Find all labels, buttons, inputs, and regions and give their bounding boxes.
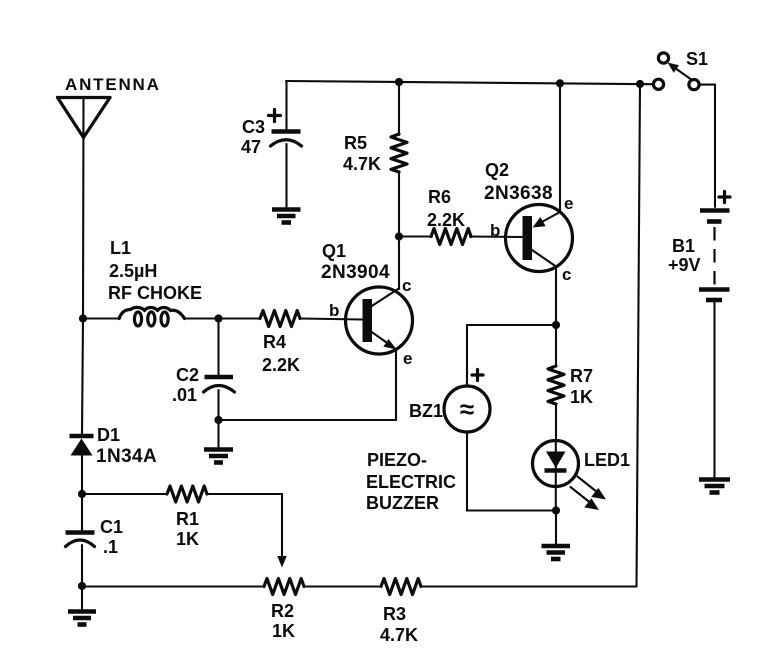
node L1 left junction — [79, 314, 87, 322]
Q2 emitter stroke with arrow (PNP) — [533, 212, 561, 228]
node A junction (D1/C1/R1) — [78, 490, 86, 498]
svg-text:BZ1: BZ1 — [409, 401, 443, 421]
svg-text:BUZZER: BUZZER — [366, 493, 439, 513]
LED1 circle — [533, 441, 579, 487]
svg-text:R6: R6 — [428, 187, 451, 207]
LED1 cathode bar — [545, 468, 567, 473]
PIEZO-ELECTRIC BUZZER caption — [366, 450, 456, 513]
wire C1 to bottom rail node — [81, 545, 83, 586]
wire antenna feed down to L1 node — [82, 98, 85, 319]
wire node A to C1 — [81, 494, 83, 531]
ground (below battery) — [699, 480, 730, 493]
svg-text:c: c — [402, 276, 411, 295]
battery B1 cell1 long plate — [700, 208, 730, 213]
node C2 bottom junction — [214, 416, 222, 424]
ground (below C3) — [272, 210, 301, 223]
resistor R5 — [391, 134, 407, 172]
svg-text:RF CHOKE: RF CHOKE — [108, 283, 202, 303]
wire right vertical (rail node to bottom rail) — [637, 84, 641, 587]
capacitor C3 top plate — [272, 129, 301, 134]
ground (below LED1) — [542, 546, 571, 559]
Q1 base bar — [363, 299, 373, 342]
LED1 triangle — [546, 452, 566, 469]
capacitor C2 curved plate — [204, 386, 235, 393]
svg-text:R4: R4 — [263, 332, 286, 352]
wiper arrow into R2 — [277, 556, 286, 568]
svg-text:2N3904: 2N3904 — [321, 262, 390, 283]
wire L1 node to choke — [83, 317, 120, 319]
svg-text:c: c — [562, 265, 571, 284]
node LED bottom junction — [552, 506, 560, 514]
svg-text:L1: L1 — [110, 238, 131, 258]
wire node up to R5 — [398, 172, 400, 237]
svg-text:C2: C2 — [176, 365, 199, 385]
LED1 emission arrow 1 — [578, 477, 607, 500]
svg-text:D1: D1 — [97, 425, 120, 445]
svg-text:R7: R7 — [570, 366, 593, 386]
LED1 emission arrow 2 — [571, 487, 600, 510]
transistor Q2 2N3638 circle — [506, 205, 573, 272]
wire S1 to battery — [700, 85, 716, 207]
svg-text:.1: .1 — [103, 537, 118, 557]
svg-text:PIEZO-: PIEZO- — [367, 450, 427, 470]
Q2 collector stroke — [532, 250, 556, 267]
svg-text:1N34A: 1N34A — [96, 446, 157, 467]
switch S1 right contact — [689, 80, 699, 90]
wire node to R6 — [399, 235, 432, 237]
resistor R3 — [381, 579, 421, 595]
svg-text:C1: C1 — [100, 517, 123, 537]
wire choke to C2 node — [185, 317, 220, 319]
resistor R4 — [260, 311, 300, 327]
svg-text:1K: 1K — [176, 529, 199, 549]
battery B1 dashed link — [713, 227, 715, 285]
svg-text:2N3638: 2N3638 — [484, 183, 553, 204]
wire buzzer bottom to LED node — [467, 432, 556, 511]
svg-text:ELECTRIC: ELECTRIC — [366, 472, 456, 492]
svg-text:1K: 1K — [570, 387, 593, 407]
svg-text:47: 47 — [241, 137, 261, 157]
bottom rail wire middle segment — [304, 585, 381, 587]
Q1 collector stroke — [371, 289, 398, 307]
svg-text:LED1: LED1 — [584, 450, 630, 470]
capacitor C2 top plate — [205, 375, 234, 380]
node rail right junction — [636, 80, 644, 88]
resistor R6 — [431, 229, 471, 245]
resistor R2 (pot) — [264, 579, 304, 595]
wire R1 to wiper drop — [207, 494, 282, 558]
wire Q2 emitter to top rail — [559, 84, 561, 212]
svg-text:Q2: Q2 — [485, 160, 509, 180]
node collector junction (R5/R6/Q1c) — [395, 232, 403, 240]
antenna symbol — [58, 98, 111, 138]
svg-text:2.2K: 2.2K — [262, 355, 300, 375]
Q2 base bar — [523, 216, 533, 260]
svg-text:b: b — [329, 301, 339, 320]
BZ1 plus sign — [472, 370, 483, 381]
battery B1 plus sign — [719, 192, 730, 203]
diode D1 (1N34A) cathode bar — [70, 434, 94, 439]
bottom rail wire right segment — [421, 585, 637, 587]
buzzer BZ1 circle — [444, 386, 490, 432]
capacitor C2 lead from node — [217, 319, 219, 376]
switch S1 left contact — [653, 79, 663, 89]
wire C2 node to ground — [217, 420, 219, 448]
svg-text:e: e — [564, 194, 573, 213]
wire C3 to ground — [285, 144, 287, 208]
svg-text:e: e — [403, 349, 412, 368]
svg-text:R2: R2 — [271, 601, 294, 621]
wire LED node to ground — [555, 511, 557, 546]
wire left vertical from L1 node down to D1 — [82, 319, 83, 435]
battery B1 cell2 long plate — [699, 287, 730, 292]
svg-text:C3: C3 — [242, 117, 265, 137]
capacitor C1 curved plate — [66, 540, 95, 547]
svg-text:Q1: Q1 — [322, 241, 346, 261]
wire Q2 collector down to buzzer node — [555, 267, 557, 326]
C3 plus sign — [269, 110, 281, 122]
ground (below C2) — [204, 450, 233, 463]
transistor Q1 2N3904 circle — [346, 287, 413, 354]
svg-text:2.5µH: 2.5µH — [109, 261, 157, 281]
Q1 emitter stroke with arrow — [371, 332, 397, 350]
wire C2 node to R4 — [219, 317, 261, 319]
switch S1 arm with arrow — [668, 63, 691, 80]
svg-text:R1: R1 — [176, 509, 199, 529]
wire R6 to Q2 base — [470, 235, 522, 238]
wire C2 bottom to node — [217, 390, 219, 420]
capacitor C3 curved plate — [271, 140, 302, 146]
top rail wire — [286, 81, 653, 84]
wire C3 drop from rail — [285, 81, 287, 130]
resistor R1 — [167, 486, 207, 502]
svg-text:ANTENNA: ANTENNA — [65, 75, 161, 94]
wire Q1 collector up to node — [398, 237, 400, 290]
svg-text:4.7K: 4.7K — [343, 154, 381, 174]
svg-text:R3: R3 — [383, 604, 406, 624]
node bottom-left junction (C1/bottom rail) — [78, 582, 86, 590]
wire node to R7 — [555, 325, 557, 366]
node rail R5 junction — [395, 78, 403, 86]
svg-text:1K: 1K — [272, 621, 295, 641]
capacitor C1 top plate — [66, 530, 95, 535]
svg-text:b: b — [490, 221, 500, 240]
switch S1 upper throw contact — [658, 53, 668, 63]
resistor R7 — [548, 366, 564, 404]
svg-text:2.2K: 2.2K — [427, 210, 465, 230]
battery B1 cell2 short plate — [706, 298, 722, 303]
svg-text:S1: S1 — [686, 49, 708, 69]
ground (below C1) — [68, 612, 96, 625]
svg-text:R5: R5 — [344, 133, 367, 153]
wire buzzer top to collector node — [467, 325, 556, 386]
wire R7 to LED1 — [555, 404, 557, 442]
wire node A to R1 — [82, 493, 167, 495]
bottom rail wire left segment — [82, 585, 264, 587]
wire battery to ground — [713, 302, 715, 478]
svg-text:+9V: +9V — [668, 255, 701, 275]
battery B1 cell1 short plate — [707, 219, 722, 224]
svg-text:4.7K: 4.7K — [380, 625, 418, 645]
node C2 top junction — [214, 314, 222, 322]
wire R4 to Q1 base — [300, 319, 362, 320]
node buzzer top junction — [552, 321, 560, 329]
diode D1 triangle — [71, 439, 93, 456]
inductor L1 (2.5uH RF choke) — [119, 307, 185, 326]
svg-text:B1: B1 — [672, 236, 695, 256]
svg-text:.01: .01 — [172, 385, 197, 405]
wire emitter return (C2 node to Q1 emitter) — [219, 350, 397, 420]
svg-text:≈: ≈ — [460, 394, 474, 424]
wire D1 to node A — [81, 455, 83, 494]
wire R5 top to rail — [398, 82, 400, 135]
node rail Q2e junction — [556, 79, 564, 87]
wire LED1 internal lead — [555, 442, 557, 511]
wire to ground below C1 — [81, 586, 83, 610]
